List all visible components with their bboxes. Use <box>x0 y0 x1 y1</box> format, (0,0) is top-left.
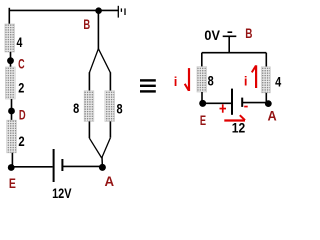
svg-text:B: B <box>245 25 252 41</box>
wire: rail R2a to R2b <box>11 99 13 121</box>
wire: node E to battery <box>11 166 52 168</box>
wire: battery to node A <box>63 165 102 167</box>
svg-text:i: i <box>244 74 248 89</box>
node A (left circuit) <box>99 164 106 171</box>
wire: right circuit right branch upper <box>265 53 267 67</box>
label A (right circuit) <box>268 107 277 123</box>
resistor 4 (left circuit) <box>5 24 15 52</box>
wire: split fan right <box>98 49 110 73</box>
wire: rail R2b to node E <box>11 153 13 167</box>
wire: right 8 branch upper <box>109 72 111 91</box>
wire: E to battery (right circuit) <box>203 102 231 104</box>
svg-text:2: 2 <box>18 79 24 95</box>
wire: left circuit top wire <box>9 9 118 11</box>
battery right circuit short plate <box>241 98 243 107</box>
current arrow up (right branch) <box>252 65 256 88</box>
label i (left branch) <box>174 74 178 89</box>
ground (left circuit): bar 3 medium <box>124 8 126 15</box>
resistor 2 upper (left circuit) <box>6 67 16 99</box>
label 2 upper <box>18 79 24 95</box>
ground (left circuit): bar 2 short <box>120 8 122 12</box>
svg-text:8: 8 <box>73 100 79 116</box>
current arrow right (battery current) <box>224 115 245 120</box>
label 4 <box>17 34 23 50</box>
battery right circuit long plate <box>231 89 233 115</box>
wire: right circuit top wire <box>202 52 266 54</box>
label - <box>244 106 248 108</box>
node E (left circuit) <box>8 164 15 171</box>
label D <box>19 107 26 123</box>
wire: left 8 branch upper <box>88 72 90 91</box>
svg-text:0V: 0V <box>204 27 220 43</box>
current arrow down (left branch) <box>185 68 189 91</box>
label B (right circuit) <box>245 25 252 41</box>
label 8 left <box>73 100 79 116</box>
label + <box>220 104 227 112</box>
resistor 8 (right circuit) <box>197 67 207 92</box>
wire: converge left diagonal <box>89 138 101 158</box>
ground (right circuit): short bar <box>228 31 233 33</box>
ground (right circuit): long bar <box>223 35 237 37</box>
svg-text:12: 12 <box>232 119 246 135</box>
wire: right 8 branch lower <box>109 121 111 137</box>
battery 12V long plate <box>53 149 55 182</box>
svg-text:A: A <box>268 107 277 123</box>
svg-text:i: i <box>174 74 178 89</box>
wire: battery to node A (right circuit) <box>243 102 266 104</box>
node A (right circuit) <box>265 100 272 107</box>
resistor 2 lower (left circuit) <box>7 120 17 153</box>
node C <box>7 57 14 64</box>
resistor 4 (right circuit) <box>261 67 270 93</box>
wire: converge right diagonal <box>102 138 111 158</box>
wire: right circuit left branch lower <box>201 92 203 103</box>
svg-text:B: B <box>83 16 90 32</box>
label E (left circuit) <box>9 175 16 191</box>
node D <box>8 108 15 115</box>
wire: left 8 branch lower <box>88 121 90 138</box>
svg-text:4: 4 <box>275 74 281 90</box>
label C <box>18 56 25 72</box>
wire: split fan left <box>89 49 98 73</box>
wire: B down to split <box>97 10 99 49</box>
node B (left circuit) <box>95 7 102 14</box>
ground (left circuit): bar 1 long <box>117 6 119 18</box>
ground (right circuit): stem <box>228 37 230 53</box>
label i (right branch) <box>244 74 248 89</box>
svg-text:12V: 12V <box>52 185 72 201</box>
resistor 8 right (left circuit) <box>105 91 115 122</box>
svg-text:4: 4 <box>17 34 23 50</box>
wire: right circuit right branch lower <box>265 93 267 103</box>
wire: right circuit left branch upper <box>201 53 203 67</box>
label 4 (right circuit) <box>275 74 281 90</box>
label 12V <box>52 185 72 201</box>
svg-text:C: C <box>18 56 25 72</box>
label 2 lower <box>18 133 24 149</box>
svg-text:E: E <box>200 112 206 128</box>
wire: left rail top stub into R4 <box>8 8 10 25</box>
svg-text:2: 2 <box>18 133 24 149</box>
label 12 (right circuit) <box>232 119 246 135</box>
node E (right circuit) <box>199 100 206 107</box>
wire: rail R4 to R2a <box>10 52 12 67</box>
svg-text:A: A <box>105 173 115 189</box>
label E (right circuit) <box>200 112 206 128</box>
label 8 right <box>117 100 123 116</box>
svg-text:8: 8 <box>117 100 123 116</box>
label 8 (right circuit) <box>208 72 214 88</box>
battery 12V short plate <box>61 159 63 171</box>
wire: converge stub to node A <box>101 157 103 167</box>
equivalence symbol <box>140 79 156 92</box>
svg-text:8: 8 <box>208 72 214 88</box>
svg-text:E: E <box>9 175 16 191</box>
svg-text:D: D <box>19 107 26 123</box>
label B (left circuit) <box>83 16 90 32</box>
label A (left circuit) <box>105 173 115 189</box>
resistor 8 left (left circuit) <box>84 91 94 122</box>
label 0V (right circuit) <box>204 27 220 43</box>
